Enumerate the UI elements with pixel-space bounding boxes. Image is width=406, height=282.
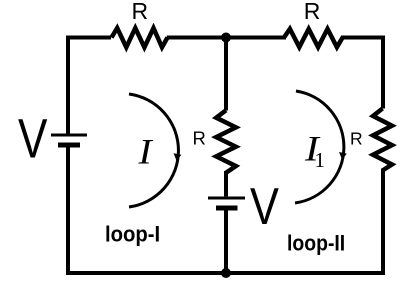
loop-I arrowhead (174, 153, 182, 161)
resistor R2 (top-right) (284, 29, 343, 47)
svg-text:V: V (250, 178, 279, 236)
wire: top-right corner + right vertical (top) (341, 38, 383, 109)
wire: middle vertical (resistor to battery V2) (224, 171, 228, 196)
svg-text:loop-II: loop-II (287, 231, 345, 256)
node junction bottom (221, 268, 231, 278)
resistor R3 (middle) (216, 110, 236, 173)
battery V1 long plate (51, 134, 87, 137)
svg-text:I: I (137, 132, 154, 172)
wire: right vertical (bottom) + bottom wire + left vertical (bottom) (68, 146, 383, 273)
svg-text:R: R (350, 128, 363, 148)
battery V2 long plate (208, 197, 245, 200)
svg-text:V: V (18, 108, 47, 170)
loop-II arrowhead (339, 152, 347, 160)
wire: middle vertical (bottom) (224, 211, 228, 274)
wire: left vertical (top) + top-left corner + top wire to R1 (68, 38, 111, 135)
resistor R4 (right) (373, 109, 392, 171)
battery V1 short plate (58, 143, 80, 148)
wire: middle vertical (top) (224, 35, 228, 111)
loop-I current direction arc (129, 94, 178, 207)
svg-text:1: 1 (315, 148, 326, 172)
svg-text:loop-I: loop-I (105, 222, 160, 247)
svg-text:R: R (193, 127, 206, 148)
battery V2 short plate (216, 206, 238, 211)
wire: top middle segment (167, 36, 286, 40)
resistor R1 (top-left) (112, 28, 168, 47)
node junction top (221, 33, 231, 43)
loop-II current direction arc (295, 91, 344, 203)
svg-text:R: R (304, 0, 321, 24)
svg-text:R: R (132, 0, 149, 24)
